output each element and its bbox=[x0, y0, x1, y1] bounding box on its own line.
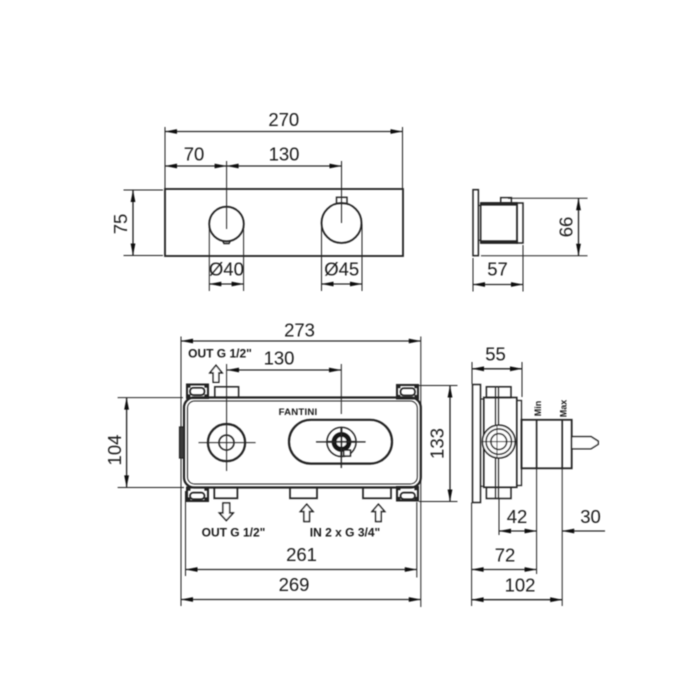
svg-text:269: 269 bbox=[279, 574, 310, 595]
svg-text:Max: Max bbox=[559, 400, 569, 418]
svg-text:57: 57 bbox=[487, 259, 508, 280]
svg-text:55: 55 bbox=[485, 343, 506, 364]
svg-text:FANTINI: FANTINI bbox=[279, 407, 318, 418]
svg-text:30: 30 bbox=[580, 506, 601, 527]
svg-text:270: 270 bbox=[268, 109, 299, 130]
svg-text:102: 102 bbox=[505, 575, 536, 596]
svg-text:Min: Min bbox=[533, 401, 543, 417]
svg-text:Ø45: Ø45 bbox=[324, 259, 359, 280]
svg-text:OUT G 1/2": OUT G 1/2" bbox=[202, 526, 266, 540]
svg-text:OUT G 1/2": OUT G 1/2" bbox=[188, 347, 252, 361]
svg-text:IN 2 x G 3/4": IN 2 x G 3/4" bbox=[310, 526, 380, 540]
svg-text:70: 70 bbox=[184, 144, 205, 165]
svg-text:72: 72 bbox=[495, 545, 516, 566]
svg-text:42: 42 bbox=[507, 506, 528, 527]
svg-text:104: 104 bbox=[104, 435, 125, 466]
svg-text:273: 273 bbox=[284, 320, 315, 341]
svg-text:130: 130 bbox=[264, 348, 295, 369]
svg-text:75: 75 bbox=[110, 214, 131, 235]
svg-text:261: 261 bbox=[286, 544, 317, 565]
svg-text:66: 66 bbox=[556, 217, 577, 238]
svg-text:Ø40: Ø40 bbox=[209, 259, 244, 280]
svg-text:133: 133 bbox=[427, 428, 448, 459]
svg-text:130: 130 bbox=[269, 144, 300, 165]
